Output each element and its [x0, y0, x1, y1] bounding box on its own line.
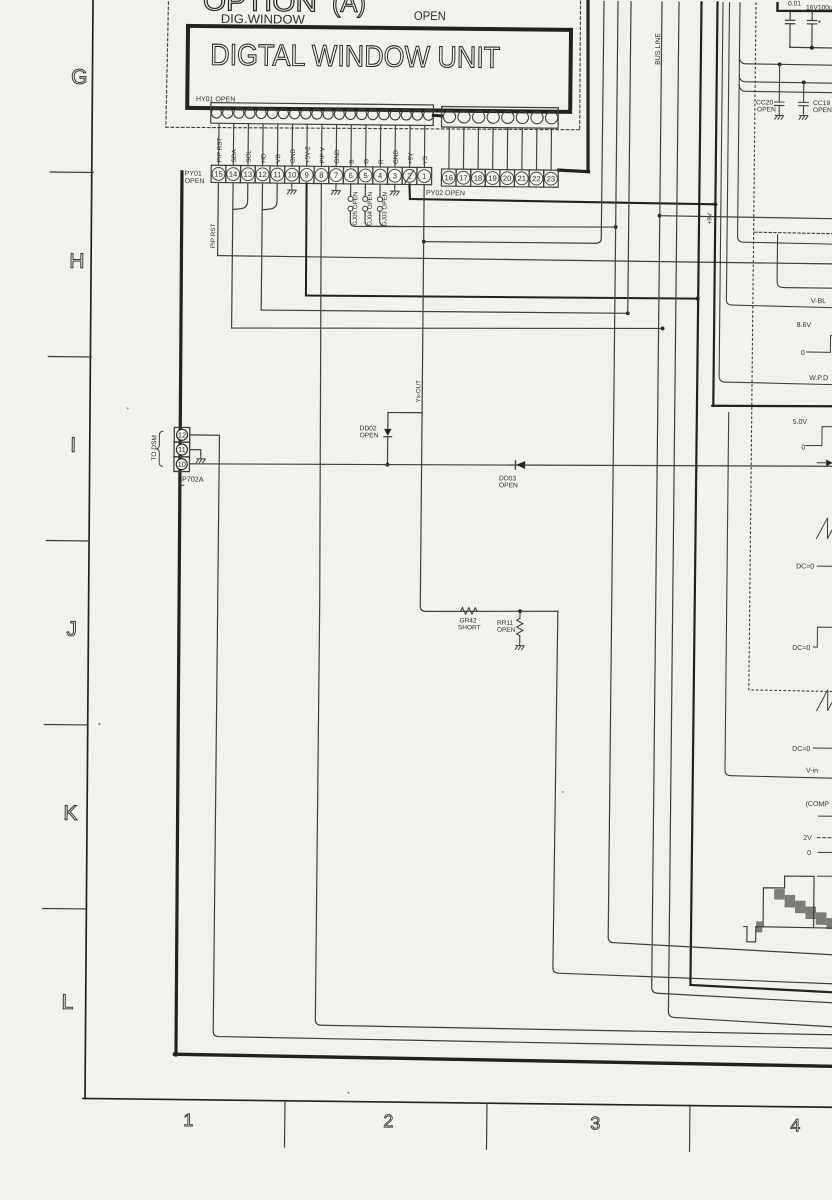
wire pin15 horizontal right — [218, 256, 832, 264]
svg-text:0: 0 — [801, 444, 805, 451]
svg-text:R: R — [378, 159, 385, 164]
svg-text:0: 0 — [801, 350, 805, 357]
wire V-in hook — [725, 413, 832, 779]
svg-text:14: 14 — [229, 170, 238, 179]
svg-text:19: 19 — [488, 174, 497, 183]
connector HY01 row1 box — [211, 103, 434, 126]
svg-text:0: 0 — [807, 850, 811, 857]
schematic thick border left — [173, 172, 185, 1055]
col tick 1/2 — [284, 1101, 286, 1147]
connector PY02 pin stubs row2 — [449, 127, 552, 170]
level dash (COMP — [818, 815, 832, 817]
wire P702A pin11 to ground — [190, 450, 201, 455]
svg-text:SCL: SCL — [246, 150, 253, 163]
svg-text:8: 8 — [319, 171, 323, 180]
ground RR11 — [515, 641, 524, 649]
svg-text:I: I — [70, 434, 76, 457]
waveform outline steps — [763, 876, 814, 927]
svg-text:J: J — [66, 618, 77, 641]
svg-text:3: 3 — [590, 1113, 600, 1133]
wire YS branch right — [424, 0, 604, 244]
svg-text:V-in: V-in — [806, 767, 818, 774]
svg-text:G: G — [363, 159, 370, 164]
svg-text:13: 13 — [244, 170, 253, 179]
connector PY01 pin stubs row1 — [219, 123, 425, 167]
page border left — [82, 0, 97, 1098]
svg-text:17: 17 — [459, 173, 468, 182]
tap line y74 — [739, 76, 832, 83]
svg-text:OPEN: OPEN — [757, 106, 776, 113]
junction +9V end — [713, 202, 717, 206]
resistor RR11 vertical — [517, 611, 524, 641]
schematic thick border bottom — [174, 1054, 832, 1066]
svg-text:2: 2 — [383, 1111, 393, 1131]
junction CC19 — [802, 81, 806, 85]
connector HY01 row1-row2 link — [433, 114, 441, 118]
svg-text:B: B — [349, 159, 356, 163]
svg-text:G: G — [71, 66, 88, 89]
junction RGB line on vert B — [614, 225, 618, 229]
junction YS branch — [422, 240, 426, 244]
svg-text:GJ03 OPEN: GJ03 OPEN — [381, 192, 388, 226]
level dash white — [817, 875, 831, 877]
wire vertical I — [726, 3, 832, 308]
svg-text:BUS LINE: BUS LINE — [655, 33, 662, 65]
wire vertical H — [719, 3, 832, 385]
wire pin2 +9V down thick — [408, 184, 411, 199]
svg-text:PIP RST: PIP RST — [216, 137, 223, 162]
wire pin9 +5V-2 down thick — [305, 183, 307, 295]
dashed option box bottom — [166, 125, 580, 131]
schematic thick border top-right horizontal — [559, 170, 589, 172]
svg-text:16: 16 — [444, 173, 453, 182]
diode DD02 — [384, 429, 392, 436]
svg-text:8.6V: 8.6V — [797, 322, 812, 329]
svg-text:7: 7 — [334, 171, 338, 180]
svg-text:5.0V: 5.0V — [793, 419, 808, 426]
svg-text:10: 10 — [178, 460, 186, 469]
svg-text:9: 9 — [305, 170, 309, 179]
main line end arrow — [817, 462, 828, 464]
svg-text:W.P.D: W.P.D — [809, 375, 828, 382]
wire pin8 PIP V down — [312, 184, 832, 1035]
svg-text:4: 4 — [790, 1115, 800, 1135]
svg-text:(A): (A) — [332, 0, 366, 18]
wire pin15 PIP RST down — [217, 182, 220, 255]
row tick K/L — [42, 907, 85, 909]
row tick J/K — [44, 724, 87, 726]
svg-text:+5V-2: +5V-2 — [305, 146, 312, 163]
svg-text:4: 4 — [378, 171, 382, 180]
svg-text:K: K — [63, 802, 77, 825]
connector HY01 row2 circles — [443, 111, 558, 124]
scan speck 1 — [98, 723, 100, 725]
svg-text:DIGTAL WINDOW UNIT: DIGTAL WINDOW UNIT — [210, 39, 500, 75]
svg-text:6: 6 — [349, 171, 353, 180]
svg-text:3: 3 — [393, 171, 397, 180]
wire horizontal from D right — [659, 216, 832, 219]
wire main horizontal (P702A pin10 line) — [189, 460, 832, 471]
waveform baseline + sync — [744, 927, 832, 943]
ground pin10 — [291, 183, 293, 186]
svg-text:SDA: SDA — [231, 149, 238, 163]
page border bottom — [83, 1098, 831, 1107]
svg-text:5: 5 — [363, 171, 367, 180]
svg-text:0.01: 0.01 — [788, 0, 801, 7]
svg-text:Ys-OUT: Ys-OUT — [415, 380, 422, 403]
scan speck 3 — [562, 791, 564, 793]
right block thick bottom — [712, 405, 832, 407]
capacitor C (16V100u) — [807, 11, 817, 48]
wire cap bottoms — [790, 46, 832, 49]
connector PY02 pin circles+numbers — [442, 171, 557, 185]
svg-text:DC=0: DC=0 — [792, 645, 810, 652]
wire +5V-2 horizontal right thick — [306, 295, 698, 300]
ground pin3 — [394, 184, 396, 187]
scan speck 4 — [127, 407, 129, 409]
connector HY01 row2 box — [441, 107, 558, 129]
wire +9V horizontal right thick — [410, 199, 715, 204]
svg-text:12: 12 — [258, 170, 267, 179]
svg-text:11: 11 — [273, 170, 281, 179]
ground P702A pin11 — [196, 455, 205, 463]
svg-text:10: 10 — [288, 170, 297, 179]
wire HD/VD horizontal right — [261, 309, 628, 313]
wire YS line down segment — [553, 611, 832, 984]
svg-text:OPEN: OPEN — [813, 107, 832, 114]
schematic thick border top-right vertical — [586, 1, 590, 172]
diode DD02 branch wire — [387, 412, 422, 465]
svg-text:P702A: P702A — [182, 474, 204, 483]
junction RR11 — [518, 609, 522, 613]
svg-text:1: 1 — [422, 172, 426, 181]
junction CC20 — [778, 62, 782, 66]
col tick 2/3 — [485, 1103, 487, 1149]
tap line y56 — [739, 58, 832, 65]
svg-text:VD: VD — [275, 154, 282, 163]
svg-text:23: 23 — [547, 174, 556, 183]
svg-text:OPEN: OPEN — [185, 178, 205, 185]
svg-text:GJ05 OPEN: GJ05 OPEN — [352, 192, 359, 226]
svg-text:PIP V: PIP V — [319, 146, 326, 163]
svg-text:OPEN: OPEN — [359, 432, 378, 439]
speck near P702A — [179, 483, 184, 485]
svg-text:GND: GND — [290, 148, 297, 163]
capacitor CC20 — [774, 64, 784, 111]
wire vertical F thick bus — [690, 2, 832, 992]
wire vertical C — [628, 2, 631, 314]
svg-text:SHORT: SHORT — [458, 624, 481, 631]
wire bus SDA/SCL horizontal right — [232, 324, 663, 333]
svg-text:PY02 OPEN: PY02 OPEN — [426, 190, 465, 197]
svg-text:H: H — [69, 250, 84, 273]
component box top right — [777, 3, 832, 11]
svg-text:GND: GND — [393, 150, 400, 165]
waveform staircase gray treads — [774, 889, 832, 929]
wire vertical D (bus line) — [652, 2, 832, 1003]
wire vertical E — [668, 2, 832, 1027]
jumper GJ03 pin4 R — [379, 184, 381, 196]
row tick I/J — [46, 540, 89, 542]
svg-text:PIP RST: PIP RST — [210, 223, 217, 248]
connector P702A pin circles — [176, 429, 187, 470]
dashed horizontal right upper — [755, 232, 832, 234]
connector PY02 numbered boxes — [441, 169, 558, 187]
capacitor CC19 — [799, 82, 809, 111]
tap line y83.5 — [739, 85, 832, 92]
svg-text:TO DSM: TO DSM — [151, 435, 158, 461]
dashed vertical right — [749, 3, 832, 692]
wire pin14 SDA down — [232, 183, 234, 328]
wire pin11 VD jog into HD — [262, 183, 277, 210]
connector HY01 row1 circles — [211, 108, 433, 120]
svg-text:+9V: +9V — [706, 212, 713, 224]
wire pin12 HD down — [261, 183, 262, 310]
connector P702A boxes — [174, 427, 190, 471]
svg-text:DC=0: DC=0 — [792, 746, 810, 753]
col tick 3/4 — [688, 1105, 690, 1151]
svg-text:16V100μ: 16V100μ — [806, 4, 832, 11]
scan speck 2 — [348, 1092, 350, 1094]
junction SDA/SCL on BUS — [661, 327, 665, 331]
svg-text:2V: 2V — [803, 835, 812, 842]
rounded corner line right — [777, 235, 832, 289]
row tick G/H — [50, 171, 93, 173]
jumper GJ05 pin6 B — [350, 184, 352, 196]
connector PY01 numbered boxes — [211, 165, 432, 185]
dashed option box right — [579, 1, 581, 130]
svg-text:GJ04 OPEN: GJ04 OPEN — [367, 192, 374, 226]
svg-text:12: 12 — [178, 430, 186, 439]
svg-text:L: L — [61, 991, 73, 1014]
resistor GR42 (on YS line) — [461, 608, 477, 615]
dashed option box left — [166, 0, 169, 127]
svg-text:11: 11 — [178, 445, 186, 454]
junction DD02 on main line — [386, 463, 390, 467]
svg-text:21: 21 — [517, 174, 526, 183]
ground pin7 — [335, 184, 337, 187]
capacitor C (0.01) — [785, 11, 795, 47]
svg-text:V-BL: V-BL — [811, 298, 826, 305]
svg-text:1: 1 — [183, 1110, 193, 1130]
junction D y209 — [658, 214, 662, 218]
svg-text:(COMP: (COMP — [806, 801, 830, 808]
svg-text:20: 20 — [503, 174, 512, 183]
wire pin1 YS down — [420, 185, 563, 613]
junction +5V-2 on bus — [695, 296, 699, 300]
svg-text:22: 22 — [532, 174, 541, 183]
jumper GJ04 pin5 G — [364, 184, 366, 196]
svg-text:DC=0: DC=0 — [796, 563, 814, 570]
waveform sawtooth 2 — [817, 690, 832, 711]
DIGTAL WINDOW UNIT box — [187, 26, 571, 112]
svg-text:+9V: +9V — [407, 152, 414, 164]
wire vertical B — [608, 1, 832, 954]
svg-text:GND: GND — [334, 149, 341, 164]
wire pin13 SCL jog into SDA — [233, 183, 248, 210]
waveform sawtooth 1 — [816, 518, 832, 539]
svg-text:OPEN: OPEN — [414, 9, 446, 23]
wire vertical G thick (right block border) — [713, 3, 717, 406]
row tick H/I — [48, 356, 91, 358]
wire vertical J with taps — [737, 3, 832, 245]
junction HD/VD — [626, 311, 630, 315]
svg-text:15: 15 — [214, 170, 223, 179]
svg-text:OPEN: OPEN — [497, 627, 516, 634]
connector PY01 pin circles+numbers — [212, 167, 431, 182]
diode DD03 — [516, 461, 525, 469]
brace TO DSM — [156, 431, 163, 466]
svg-text:PY01: PY01 — [185, 170, 202, 177]
artifact slash pin2 — [405, 170, 414, 184]
waveform burst block — [756, 921, 762, 932]
svg-text:OPEN: OPEN — [499, 482, 518, 489]
svg-text:*: * — [818, 19, 821, 28]
svg-text:18: 18 — [474, 174, 483, 183]
svg-text:YS: YS — [422, 156, 429, 165]
wire P702A pin12 right/down — [183, 435, 832, 1048]
svg-text:HD: HD — [260, 153, 267, 163]
